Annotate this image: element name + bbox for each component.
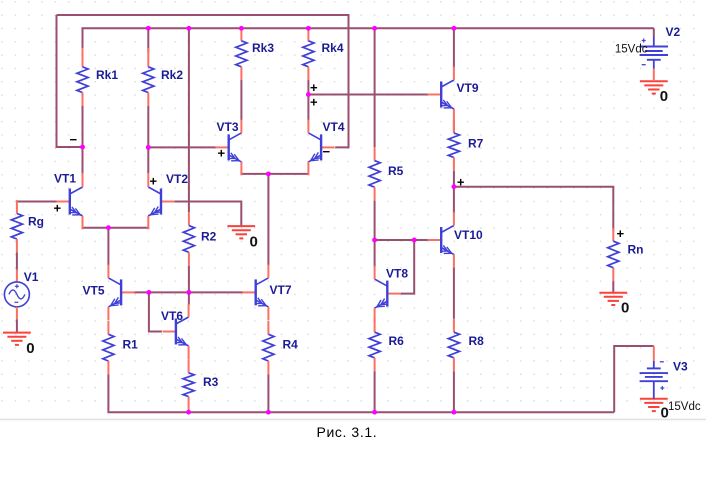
svg-text:R6: R6 bbox=[389, 334, 405, 348]
ground 0 (under Rn) bbox=[599, 293, 627, 305]
svg-text:VT9: VT9 bbox=[457, 81, 479, 95]
svg-text:VT10: VT10 bbox=[454, 228, 483, 242]
wire base rail down to VT6 base bbox=[149, 292, 162, 331]
wire tail down to VT5 collector bbox=[107, 228, 109, 266]
wire V1 to ground bbox=[16, 319, 18, 332]
svg-text:+: + bbox=[54, 201, 62, 216]
junction bottom rail / R8 bbox=[451, 410, 456, 415]
svg-text:15Vdc: 15Vdc bbox=[615, 44, 648, 56]
transistor VT5 (npn) bbox=[108, 265, 134, 321]
wire bottom rail (V-) bbox=[108, 374, 614, 412]
svg-text:0: 0 bbox=[250, 234, 258, 251]
resistor Rk3 bbox=[236, 28, 247, 80]
resistor Rn bbox=[608, 228, 619, 281]
junction rail2 / R2 bbox=[186, 26, 191, 31]
junction R7 / output node bbox=[451, 184, 456, 189]
junction base rail / R2-VT6 collector bbox=[186, 290, 191, 295]
svg-text:−: − bbox=[323, 144, 331, 159]
wire rail1 drop to VT1 collector node bbox=[57, 15, 83, 147]
transistor VT8 (npn) bbox=[375, 266, 401, 322]
svg-text:+: + bbox=[457, 175, 465, 190]
wire rail2 to Rk2 bbox=[147, 28, 149, 52]
wire VT3-VT4 emitter tail bbox=[241, 173, 308, 176]
transistor VT10 (npn) bbox=[428, 212, 454, 268]
resistor R1 bbox=[103, 321, 114, 375]
resistor Rk1 bbox=[77, 48, 88, 106]
wire rail2 to VT9 collector bbox=[453, 28, 455, 67]
wire VT5 base rail to VT7 base bbox=[135, 291, 244, 293]
wire rail2 down to R5 bbox=[374, 28, 376, 147]
junction rail2 / Rk2 bbox=[146, 26, 151, 31]
svg-text:R3: R3 bbox=[203, 375, 219, 389]
transistor VT4 (npn) bbox=[308, 120, 334, 176]
wire Rg bottom to V1 bbox=[16, 252, 18, 269]
svg-text:+: + bbox=[310, 80, 318, 95]
wire top rail 1 to VT4 base bbox=[57, 15, 349, 147]
wire rail2 to Rk4 bbox=[307, 28, 309, 29]
wire R7 to node to VT10 collector bbox=[453, 171, 455, 214]
wire R3 to bottom rail bbox=[188, 410, 190, 412]
svg-text:Rn: Rn bbox=[628, 243, 644, 257]
resistor R3 bbox=[183, 359, 194, 410]
wire VT4 collector node to VT9 base bbox=[308, 94, 427, 96]
wire output node to Rn bbox=[454, 187, 613, 231]
svg-text:0: 0 bbox=[26, 340, 34, 357]
svg-text:VT5: VT5 bbox=[83, 284, 105, 298]
junction VT4 collector node bbox=[306, 92, 311, 97]
svg-text:Rk1: Rk1 bbox=[96, 68, 118, 82]
wire VT9 emitter to R7 bbox=[453, 121, 455, 133]
svg-text:VT1: VT1 bbox=[54, 172, 76, 186]
svg-text:VT8: VT8 bbox=[386, 267, 408, 281]
wire Rk2 node to VT3 base bbox=[148, 146, 215, 148]
svg-text:+: + bbox=[617, 226, 625, 241]
wire tail down to VT7 collector bbox=[267, 174, 269, 266]
wire rail2 down to R2 bbox=[188, 28, 190, 212]
wire Rn to ground bbox=[612, 281, 614, 292]
svg-text:R2: R2 bbox=[201, 230, 217, 244]
resistor R2 bbox=[183, 212, 194, 266]
svg-text:+: + bbox=[310, 95, 318, 110]
svg-text:−: − bbox=[70, 132, 78, 147]
resistor R7 bbox=[448, 120, 459, 171]
transistor VT2 (npn) bbox=[148, 174, 174, 230]
junction bottom rail / R3 bbox=[186, 410, 191, 415]
junction VT3/VT4 emitter tail bbox=[266, 171, 271, 176]
wire VT2 base to ground bbox=[174, 202, 241, 226]
svg-text:Rg: Rg bbox=[28, 215, 44, 229]
wire R8 to bottom rail bbox=[453, 371, 455, 412]
wire R6 to bottom rail bbox=[374, 371, 376, 412]
wire rail2 to Rk3 bbox=[240, 28, 242, 29]
svg-text:R4: R4 bbox=[283, 338, 299, 352]
junction VT10 base / VT8 base bbox=[412, 238, 417, 243]
wire rail2 to V2 bbox=[653, 28, 655, 36]
junction VT1/VT2 emitter tail bbox=[106, 225, 111, 230]
wire Rk3 to VT3 collector bbox=[240, 80, 242, 121]
wire bottom rail up to V3 bbox=[614, 346, 654, 412]
transistor VT1 (npn) bbox=[56, 174, 82, 230]
svg-text:VT4: VT4 bbox=[323, 120, 345, 134]
resistor Rg bbox=[11, 200, 22, 252]
ground 0 (under V3) bbox=[640, 399, 668, 411]
svg-text:V1: V1 bbox=[24, 270, 39, 284]
resistor R6 bbox=[369, 319, 380, 371]
svg-text:VT3: VT3 bbox=[217, 120, 239, 134]
svg-text:0: 0 bbox=[660, 88, 668, 105]
wire Rk2 bottom to VT2 collector bbox=[147, 106, 149, 174]
junction rail2 / Rk3 bbox=[239, 26, 244, 31]
resistor Rk2 bbox=[143, 48, 154, 106]
junction rail2 / VT9 collector bbox=[451, 26, 456, 31]
resistor R4 bbox=[263, 321, 274, 375]
svg-text:R8: R8 bbox=[469, 334, 485, 348]
wire Rg to VT1 base bbox=[17, 201, 57, 203]
resistor Rk4 bbox=[303, 28, 314, 80]
junction bottom rail / R6 bbox=[372, 410, 377, 415]
wire VT8 base up to node bbox=[401, 240, 415, 294]
resistor R5 bbox=[369, 147, 380, 200]
svg-text:Rk3: Rk3 bbox=[252, 41, 274, 55]
svg-text:Rk4: Rk4 bbox=[322, 41, 344, 55]
junction VT1 collector node bbox=[80, 145, 85, 150]
wire R4 to bottom rail bbox=[267, 374, 269, 412]
transistor VT7 (npn) bbox=[242, 265, 268, 321]
ground 0 (under V1) bbox=[3, 333, 31, 345]
source V3 (15Vdc battery) bbox=[640, 346, 668, 399]
ground 0 (under VT2 base wire) bbox=[227, 226, 255, 238]
junction base rail / VT6 base bbox=[146, 290, 151, 295]
svg-text:+: + bbox=[218, 146, 226, 161]
transistor VT6 (npn) bbox=[163, 304, 189, 360]
svg-text:R7: R7 bbox=[468, 137, 484, 151]
svg-text:V3: V3 bbox=[673, 360, 688, 374]
svg-text:VT7: VT7 bbox=[270, 283, 292, 297]
wire VT10 emitter to R8 bbox=[453, 267, 455, 319]
transistor VT9 (npn) bbox=[428, 67, 454, 123]
wire Rk1 bottom to VT1 collector bbox=[82, 106, 84, 174]
source V1 (sine) bbox=[4, 270, 29, 320]
wire Rk4 to VT4 collector bbox=[307, 80, 309, 121]
wire node down to VT8 collector bbox=[374, 240, 376, 267]
source V2 (15Vdc battery) bbox=[640, 37, 668, 81]
svg-text:+: + bbox=[150, 174, 158, 189]
wire R5 bottom to node bbox=[374, 201, 376, 240]
junction rail2 / Rk4 bbox=[306, 26, 311, 31]
svg-text:R1: R1 bbox=[123, 338, 139, 352]
svg-text:R5: R5 bbox=[388, 164, 404, 178]
wire R2 bottom / VT6 collector bbox=[188, 266, 190, 305]
junction R5 / VT8 collector bbox=[372, 238, 377, 243]
canvas bottom edge bbox=[0, 418, 706, 420]
wire VT1-VT2 emitter tail bbox=[83, 227, 149, 230]
svg-text:Rk2: Rk2 bbox=[161, 68, 183, 82]
junction VT2 collector node bbox=[146, 145, 151, 150]
svg-text:VT6: VT6 bbox=[161, 309, 183, 323]
svg-text:V2: V2 bbox=[666, 25, 681, 39]
wire top rail 2 (V+) bbox=[83, 28, 654, 52]
svg-text:VT2: VT2 bbox=[166, 172, 188, 186]
ground 0 (under V2) bbox=[640, 81, 668, 93]
resistor R8 bbox=[448, 319, 459, 371]
transistor VT3 (npn) bbox=[215, 120, 241, 176]
svg-text:0: 0 bbox=[621, 300, 629, 317]
svg-text:Рис. 3.1.: Рис. 3.1. bbox=[317, 424, 378, 440]
svg-text:15Vdc: 15Vdc bbox=[668, 401, 701, 413]
junction rail2 / R5 bbox=[372, 26, 377, 31]
junction bottom rail / R4 bbox=[266, 410, 271, 415]
wire node to VT10 base bbox=[375, 239, 428, 241]
